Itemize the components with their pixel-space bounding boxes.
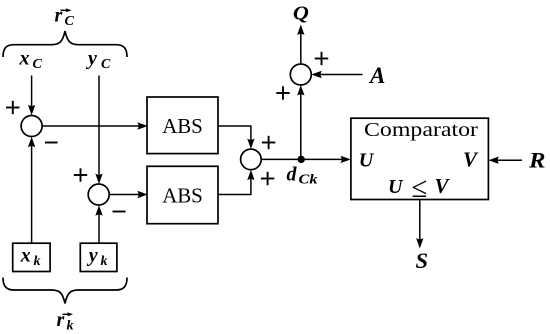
wire ABS2 to sum3 [218,178,251,195]
block xk [13,243,50,271]
wire comparator to S [419,200,421,241]
wire xk to sum1 [31,146,33,243]
wire xC to sum1 [31,76,33,109]
svg-text:Q: Q [293,3,309,25]
svg-text:ABS: ABS [162,184,203,208]
wire sum2 to ABS2 [109,194,138,196]
block ABS1 [147,97,218,154]
plus sign sum3 top input [262,136,275,149]
label xC [19,48,43,73]
svg-text:S: S [416,248,429,273]
summing junction sum4 [290,64,311,85]
wire sum3 to comparator [261,158,342,160]
wire sum1 to ABS1 [42,125,138,127]
wire A to sum4 [320,74,363,76]
junction node dCk [298,156,305,163]
wire ABS1 to sum3 [218,126,251,142]
wire yk to sum2 [98,215,100,244]
wire node dCk to sum4 [300,94,302,160]
summing junction sum2 [88,184,109,205]
label U le V [388,172,451,204]
label dCk [287,164,318,187]
block comparator [351,118,489,199]
minus sign sum1 input [45,142,58,144]
label yC [86,48,111,73]
block yk [80,243,117,271]
underbrace [3,278,127,304]
svg-text:R: R [528,148,546,173]
svg-text:Comparator: Comparator [364,119,478,141]
plus sign sum1 input [6,101,19,114]
overbrace [3,31,127,57]
plus sign sum3 bottom input [261,172,274,185]
svg-text:r: r [57,309,65,331]
svg-text:k: k [67,319,74,334]
svg-text:V: V [463,148,479,172]
svg-text:C: C [65,14,75,29]
svg-text:U: U [388,176,404,198]
summing junction sum3 [241,149,262,170]
svg-text:k: k [34,254,41,269]
minus sign sum2 input [113,211,126,213]
svg-text:V: V [435,174,451,198]
svg-text:r: r [55,5,63,27]
wire R to comparator [497,159,522,161]
svg-text:C: C [33,57,43,72]
svg-text:y: y [87,245,98,267]
wire yC to sum2 [98,76,100,177]
svg-text:d: d [287,164,298,186]
label rC vector [55,5,75,30]
svg-text:≤: ≤ [412,172,428,204]
svg-text:A: A [368,63,385,88]
svg-text:k: k [101,254,108,269]
block ABS2 [147,166,218,223]
svg-text:x: x [19,48,30,70]
svg-text:y: y [86,48,97,70]
svg-text:ABS: ABS [162,114,203,138]
plus sign sum4 right input [315,52,328,65]
svg-text:C: C [101,57,111,72]
svg-text:Ck: Ck [299,172,318,187]
label rk vector [57,309,74,334]
plus sign sum2 input [74,168,87,181]
svg-text:x: x [20,245,31,267]
svg-text:U: U [359,150,375,172]
plus sign sum4 bottom input [276,86,289,99]
summing junction sum1 [21,116,42,137]
wire sum4 to Q [300,33,302,65]
